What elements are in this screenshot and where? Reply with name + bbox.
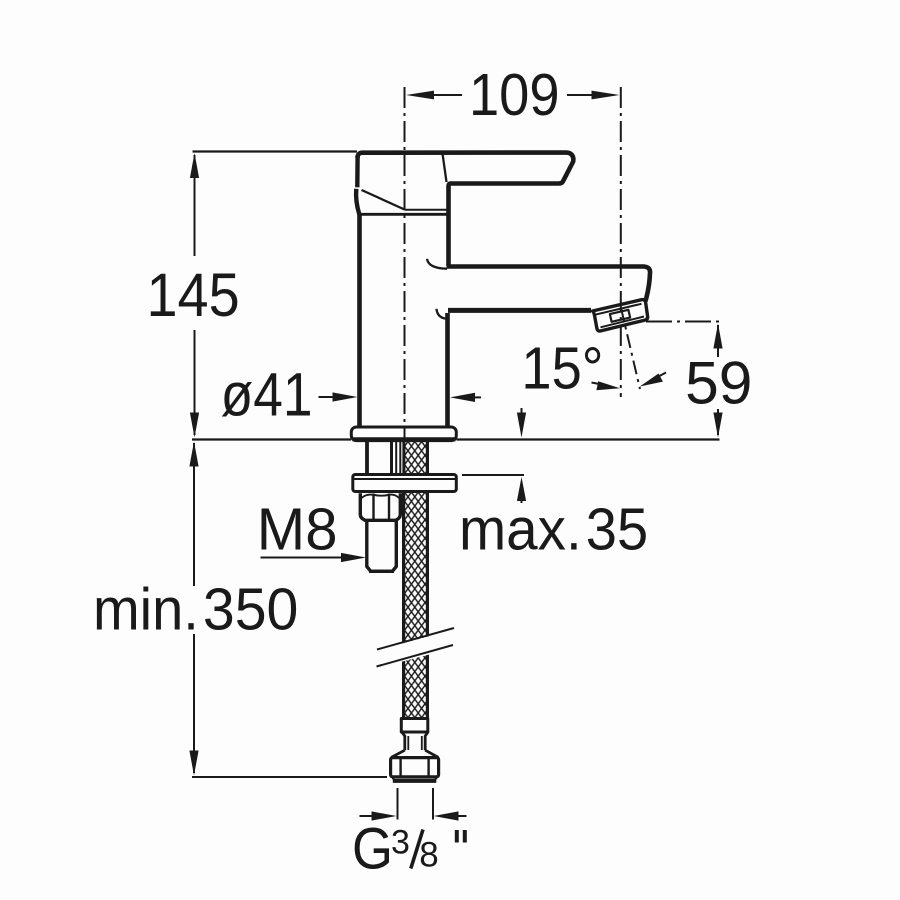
hose break line lower: [377, 645, 454, 667]
hose ferrule: [401, 719, 428, 733]
aerator outlet body: [593, 300, 648, 331]
svg-text:145: 145: [147, 262, 240, 330]
hose upper right border: [426, 442, 429, 474]
connection nut facet left: [399, 759, 401, 777]
dimension min350 line lower: [193, 634, 195, 773]
dimension text 109: [469, 63, 560, 129]
hose lower left border: [402, 492, 405, 719]
hose break line upper: [377, 628, 454, 650]
dimension o41 arrow right: [473, 396, 481, 398]
base flange bottom thick edge: [353, 437, 456, 441]
dimension text max35: [459, 497, 582, 562]
tail tube line a: [395, 442, 397, 475]
dimension min350 line upper: [193, 443, 195, 586]
svg-text:350: 350: [203, 577, 298, 643]
fillet hook at spout top junction: [427, 259, 447, 269]
svg-text:35: 35: [586, 497, 648, 563]
dimension 59 arrow up: [713, 324, 722, 349]
threaded rod bottom edge: [369, 570, 394, 573]
dimension max35 arrow up (below washer line): [521, 495, 523, 503]
hex nut outline: [360, 493, 400, 520]
svg-text:G: G: [352, 816, 393, 881]
dimension G38 arrow left: [360, 815, 374, 817]
fillet hook at spout bottom junction: [437, 309, 449, 319]
aerator screen rectangle: [610, 310, 630, 322]
faucet body top sub-line right half: [405, 209, 447, 211]
svg-text:ø41: ø41: [221, 361, 313, 429]
hose upper segment braid: [405, 442, 426, 474]
faucet body left edge: [357, 214, 362, 427]
centerline aerator horizontal: [646, 321, 720, 323]
connection nut facet right: [427, 759, 429, 777]
leader arrow M8: [261, 557, 346, 559]
faucet head: cap/lever boundary slant: [443, 154, 447, 183]
centerline aerator tilted 15 deg: [621, 308, 640, 389]
dimension 109 line right: [567, 94, 595, 96]
connection nut: [391, 758, 439, 777]
fitting neck inner lines: [408, 736, 422, 750]
dimension text 59: [685, 349, 752, 417]
counter top line left segment: [192, 438, 351, 440]
nut bottom disc: [393, 777, 436, 779]
dimension 59 arrow down: [713, 413, 722, 438]
hose lower right border: [426, 492, 429, 719]
counter top line right segment: [457, 438, 720, 440]
dimension 145 arrow up: [190, 153, 199, 178]
mounting washer inner line: [354, 478, 456, 480]
dimension 109 arrow left: [406, 91, 434, 100]
svg-text:15°: 15°: [521, 336, 603, 402]
dimension min350 arrow down: [189, 751, 198, 776]
svg-text:min.: min.: [93, 577, 199, 643]
nut bottom disc thick edge: [393, 779, 437, 783]
mounting washer plate: [353, 475, 457, 492]
svg-text:109: 109: [469, 63, 560, 129]
faucet body top line: [360, 213, 447, 216]
thread label fraction slash: [411, 830, 423, 869]
spout bottom edge: [448, 308, 591, 313]
tail tube line b: [399, 442, 401, 475]
hose upper left border: [402, 442, 405, 474]
svg-text:max.: max.: [459, 497, 582, 562]
svg-text:3: 3: [391, 824, 410, 862]
hex nut top chamfer curves: [362, 495, 400, 498]
dimension min350 arrow up: [189, 442, 198, 467]
dimension text o41: [221, 361, 313, 429]
dimension min350 bottom reference line: [192, 776, 387, 778]
dimension o41 arrow left: [319, 396, 336, 398]
hex nut facet line right: [388, 494, 390, 521]
angle 15 arrow left: [592, 383, 602, 385]
angle 15 arrow right: [658, 373, 666, 377]
faucet head: cap left edge and skirt arc: [356, 156, 359, 214]
faucet body right edge lower segment: [445, 313, 450, 427]
dimension 109 arrow right: [592, 91, 620, 100]
dimension G38 extension line right: [432, 788, 434, 820]
faucet head: top edge + right lever end: [358, 153, 574, 267]
faucet head: slanted cap underside diagonal: [362, 190, 405, 210]
thread label 3 superscript: [391, 824, 410, 862]
aerator inner bottom line: [601, 317, 645, 328]
hex nut facet line left: [372, 494, 374, 521]
dimension text 145: [147, 262, 240, 330]
svg-text:59: 59: [685, 349, 752, 417]
threaded rod below nut: [367, 521, 397, 572]
hose lower segment braid: [405, 492, 426, 719]
base flange: [351, 427, 456, 441]
fitting flare: [391, 750, 438, 757]
dimension text M8: [257, 497, 338, 562]
dimension 59 line upper: [717, 325, 719, 357]
fitting neck: [402, 732, 428, 750]
thread label 8 subscript: [419, 836, 438, 875]
dimension text min350: [93, 577, 199, 643]
svg-text:M8: M8: [257, 497, 338, 562]
dimension 59 line lower: [717, 409, 719, 435]
centerline main vertical (faucet axis): [404, 87, 406, 438]
dimension max35 arrow down (above counter line): [521, 408, 523, 414]
dimension text 15deg: [521, 336, 603, 402]
dimension G38 extension line left: [397, 788, 399, 820]
dimension 145 arrow down: [190, 413, 199, 438]
dimension 145 line lower: [194, 330, 196, 435]
thread label inch marks: [457, 830, 465, 843]
threaded shank left edge: [365, 442, 369, 475]
dimension 145 line upper: [194, 155, 196, 256]
threaded shank right edge: [390, 442, 393, 475]
hose break white gap: [370, 629, 458, 671]
washer top reference line right segment: [462, 474, 524, 476]
thread label G: [352, 816, 393, 881]
dimension G38 arrow right: [457, 815, 467, 817]
spout top edge and right end: [447, 267, 651, 302]
dimension 109 line left: [430, 94, 462, 96]
svg-text:8: 8: [419, 836, 438, 875]
aerator inner top line: [595, 304, 642, 315]
dimension 145 extension line top: [193, 150, 358, 152]
centerline spout vertical: [620, 87, 622, 397]
